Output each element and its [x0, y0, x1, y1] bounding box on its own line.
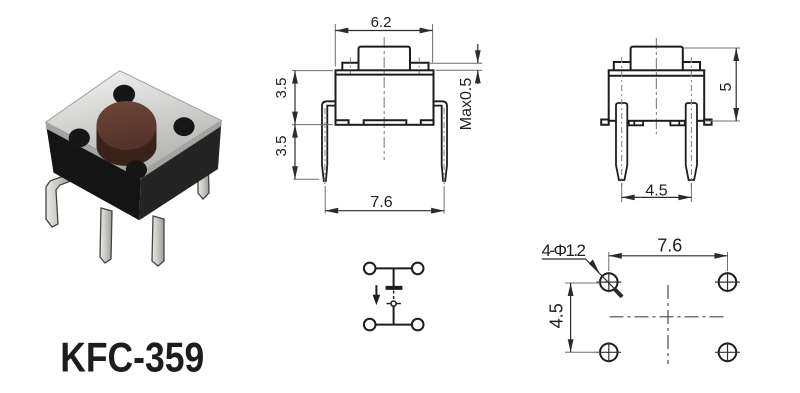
- svg-text:4.5: 4.5: [645, 183, 667, 200]
- svg-text:KFC-359: KFC-359: [60, 334, 204, 381]
- svg-text:3.5: 3.5: [273, 136, 290, 157]
- svg-text:7.6: 7.6: [370, 194, 392, 211]
- svg-text:3.5: 3.5: [273, 78, 290, 99]
- svg-text:4-Φ1.2: 4-Φ1.2: [542, 241, 587, 260]
- svg-text:5: 5: [718, 82, 735, 91]
- svg-text:7.6: 7.6: [657, 235, 682, 255]
- svg-text:Max0.5: Max0.5: [458, 78, 475, 131]
- svg-text:4.5: 4.5: [547, 303, 567, 328]
- svg-text:6.2: 6.2: [371, 14, 392, 31]
